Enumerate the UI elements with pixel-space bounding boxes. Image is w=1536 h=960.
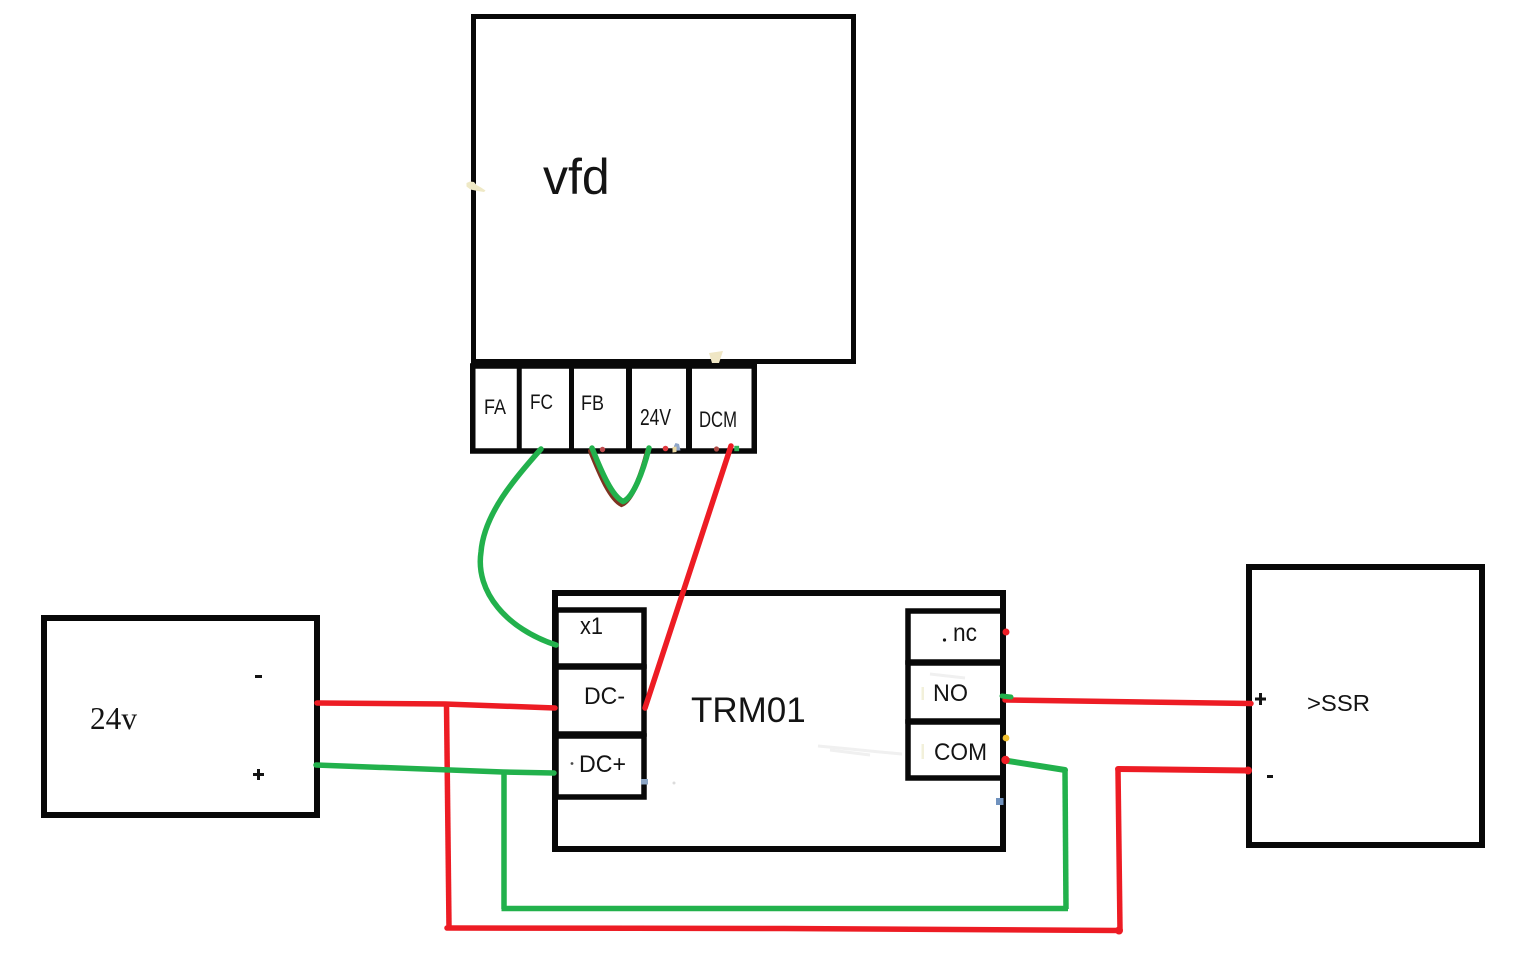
terminal x1 [556, 610, 644, 666]
block SSR [1249, 567, 1482, 845]
svg-text:>SSR: >SSR [1307, 690, 1370, 716]
terminal NO [908, 663, 1003, 721]
svg-text:nc: nc [953, 619, 977, 647]
svg-text:NO: NO [933, 680, 968, 707]
faint yellow dash left of NO [922, 687, 925, 700]
block vfd [474, 17, 854, 362]
stray mark cream nub on vfd bottom edge [709, 351, 723, 363]
wire green branch down from junction [501, 772, 507, 909]
wire red branch down from junction [447, 704, 450, 927]
node cream nub under 24V [673, 447, 677, 453]
svg-text:x1: x1 [580, 613, 603, 640]
faint smudge inside TRM01 [818, 674, 965, 755]
wire red NO to SSR plus [1005, 700, 1251, 704]
node blue dot under 24V [674, 443, 681, 451]
svg-text:24v: 24v [90, 700, 137, 736]
svg-text:DCM: DCM [699, 407, 737, 432]
terminal divider FC/FB [569, 364, 574, 449]
wire green right vertical up [1065, 770, 1066, 909]
terminal DC- [556, 667, 644, 734]
block TRM01 [555, 593, 1003, 849]
terminal divider FB/24V [626, 364, 632, 449]
wire green COM slant [1005, 761, 1065, 771]
node blue square at DC+ [641, 779, 648, 785]
terminal DC+ [556, 736, 644, 797]
svg-text:COM: COM [934, 739, 987, 766]
node red dot under DCM [714, 446, 719, 451]
wire green 24v plus to DC+ [316, 765, 554, 773]
wire red DCM to DC- [645, 446, 731, 708]
label minus (24v) [255, 675, 262, 678]
terminal divider FA/FC [517, 364, 522, 449]
label minus (SSR) [1267, 775, 1273, 778]
stray dot left of DC+ [571, 762, 574, 765]
terminal strip outer box [473, 366, 755, 451]
svg-text:vfd: vfd [543, 149, 610, 205]
wire red right vertical up [1118, 770, 1120, 930]
node red dot under FB [600, 447, 605, 452]
stray mark cream arrow on vfd left edge [467, 182, 486, 193]
svg-text:FB: FB [581, 392, 604, 415]
wire green nub at NO [1002, 696, 1011, 697]
wire red 24v minus to DC- [317, 703, 555, 708]
wire green V from FB to 24V [592, 448, 649, 502]
node green dot under DCM [734, 446, 739, 451]
svg-text:FA: FA [484, 396, 506, 419]
svg-text:FC: FC [530, 391, 553, 414]
block 24v supply [44, 618, 317, 815]
node red dot under 24V [663, 446, 669, 452]
node red dot at COM [1001, 756, 1009, 764]
terminal divider 24V/DCM [686, 364, 692, 449]
wire red to SSR minus [1118, 769, 1247, 771]
label plus (24v) [253, 769, 264, 780]
faint yellow dash left of COM [922, 744, 925, 759]
stray faint dot inside TRM01 [673, 782, 676, 785]
svg-text:24V: 24V [640, 404, 671, 430]
wire green bottom horizontal [502, 906, 1069, 912]
svg-text:DC+: DC+ [579, 751, 626, 778]
node gold dot above COM [1003, 735, 1010, 742]
terminal nc [908, 611, 1003, 662]
wire dark red under V (FB to 24V) [591, 451, 648, 505]
wire green FC to x1 [480, 449, 556, 645]
wire red bottom horizontal [447, 928, 1119, 931]
terminal COM [908, 722, 1003, 778]
node red dot at nc [1003, 629, 1010, 636]
node blue square below COM [996, 798, 1004, 805]
svg-text:TRM01: TRM01 [691, 691, 806, 730]
label plus (SSR) [1255, 693, 1266, 705]
svg-text:DC-: DC- [584, 683, 625, 710]
